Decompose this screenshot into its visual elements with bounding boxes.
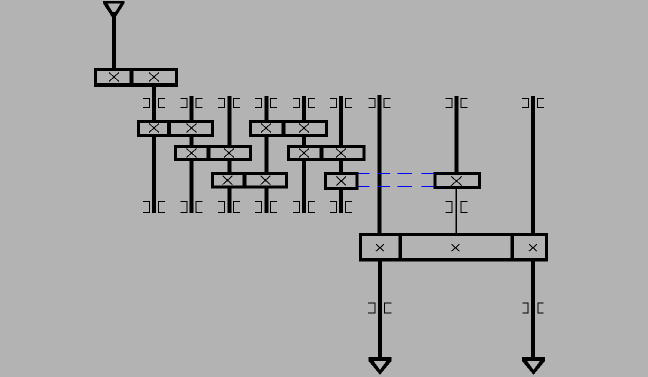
row G disconnect contacts [368,303,544,313]
wire column A (x=154) box1 to row-E stab [152,84,156,213]
stab contact E6 [330,202,352,213]
breaker Q2 (row B left) [137,120,214,137]
stab contact A9 [522,99,544,108]
stab contact E5 [293,202,315,213]
row A disconnect contacts [143,99,544,108]
wire column G (x=379.5) down to busbar box [378,95,382,236]
wire incoming feeder drop [112,12,116,70]
stab contact A4 [255,99,277,108]
wire thin link Q8 to busbar [456,186,457,236]
stab contact E2 [181,202,203,213]
wire column E (x=303.5) [302,96,306,213]
stab contact E4 [255,202,277,213]
wire column C (x=229) [228,96,232,213]
breaker Q6 (row D left) [211,172,288,189]
stab contact E3 [218,202,240,213]
wire column B (x=191.5) [190,96,194,213]
stab contact E1 [143,202,165,213]
interlock dashed link lower [357,186,435,188]
row E disconnect contacts [143,202,468,213]
wire column H (x=456) above breaker Q8 [455,96,459,178]
outgoing feeder arrow right [522,357,545,375]
stab contact A2 [181,99,203,108]
breaker Q5 (row C right) [287,145,366,161]
breaker Q3 (row B right) [249,120,328,137]
wire column I (x=533) down to busbar [531,96,535,236]
wire column F (x=341) [339,96,343,213]
interlock dashed link upper [357,173,435,175]
stab contact G1 [368,303,392,313]
stab contact A3 [218,99,240,108]
breaker Q1 (two-cell box, top) [94,68,178,87]
stab contact G2 [523,303,544,313]
wire column I below busbar to outgoing arrow [531,258,535,358]
wire column G below busbar to outgoing arrow [378,258,382,358]
breaker Q7 (row D small, interlocked) [324,172,359,190]
incoming supply arrow (top feeder) [103,1,125,20]
stab contact A5 [293,99,315,108]
breaker Q8 (row D right small, interlocked) [434,172,482,189]
stab contact E7 [446,202,468,213]
wire column D (x=266) [265,96,269,213]
busbar coupler box (three cells) [359,233,548,262]
stab contact A1 [143,99,165,108]
stab contact A8 [446,99,468,108]
stab contact A7 [369,99,391,108]
outgoing feeder arrow left [369,357,392,375]
breaker Q4 (row C left) [174,145,252,161]
stab contact A6 [330,99,352,108]
